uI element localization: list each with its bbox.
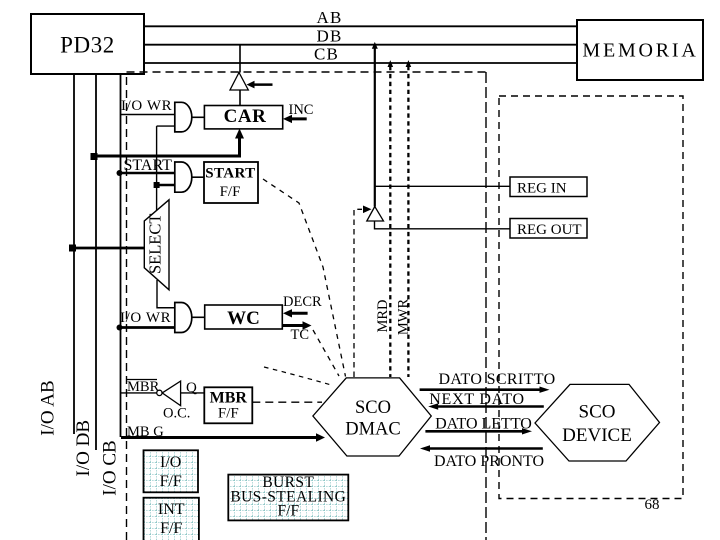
node DATO PRONTO label [434, 453, 544, 470]
node I/O CB label [100, 440, 121, 495]
SELECT mux [144, 200, 169, 290]
svg-text:CAR: CAR [224, 106, 267, 127]
svg-text:PD32: PD32 [60, 33, 115, 58]
arrow NEXT DATO [428, 403, 544, 409]
svg-text:F/F: F/F [218, 406, 239, 422]
node DATO LETTO label [435, 415, 532, 432]
O.C. driver triangle [162, 381, 180, 406]
node MRD label [375, 299, 391, 332]
arrow DATO LETTO [425, 428, 532, 434]
wire CB bus [144, 62, 577, 64]
REG IN box [510, 177, 587, 197]
junction square on select vertical [154, 182, 160, 188]
wire REG OUT to buffer [375, 221, 511, 229]
svg-text:I/O DB: I/O DB [73, 420, 94, 476]
svg-text:F/F: F/F [160, 520, 182, 537]
node DB label [316, 26, 342, 45]
node DECR label [283, 294, 322, 310]
svg-text:START: START [205, 166, 255, 182]
wire I/O DB to CAR (thick, with up arrow) [96, 129, 244, 157]
svg-text:I/O: I/O [160, 454, 181, 471]
svg-text:I/O AB: I/O AB [38, 380, 59, 435]
junction dot START on I/O CB [117, 170, 123, 176]
SCO DMAC hexagon [313, 378, 431, 456]
svg-text:SELECT: SELECT [145, 214, 164, 274]
node START label [124, 157, 173, 174]
wire G3 to WC [192, 316, 205, 318]
svg-text:MRD: MRD [375, 299, 391, 332]
dashed enable REG OUT driver from SCO DMAC [354, 206, 372, 378]
INT F/F box [144, 498, 199, 540]
wire select line vertical to AND1 second input [157, 126, 176, 211]
START F/F box [204, 162, 258, 203]
node CB label [314, 44, 339, 63]
node I/O AB label [38, 380, 59, 435]
register WC [205, 305, 283, 329]
svg-text:REG IN: REG IN [517, 180, 567, 196]
wire G1 to CAR [192, 116, 205, 118]
svg-text:I/O WR: I/O WR [120, 310, 171, 326]
REG OUT box [510, 219, 587, 239]
node INC label [289, 102, 314, 118]
I/O F/F box [144, 450, 199, 492]
junction square on I/O AB [69, 245, 76, 252]
node MBR- label with overline [126, 379, 160, 395]
node I/O DB label [73, 420, 94, 476]
node I/O WR label (bottom) [120, 310, 171, 326]
dashed wire O.C. enable to SCO DMAC [264, 367, 333, 386]
svg-text:DECR: DECR [283, 294, 322, 310]
wire I/O WR to AND3 [120, 326, 176, 329]
svg-text:F/F: F/F [160, 473, 182, 490]
PD32 box [31, 14, 144, 74]
svg-text:I/O WR: I/O WR [121, 98, 172, 114]
svg-text:I/O CB: I/O CB [100, 440, 121, 495]
svg-text:DATO LETTO: DATO LETTO [435, 415, 532, 432]
svg-text:MBR: MBR [210, 389, 248, 406]
junction dot I/O WR on I/O CB [117, 325, 123, 331]
svg-text:DMAC: DMAC [345, 420, 401, 440]
dashed wire START F/F to SCO DMAC [263, 179, 346, 377]
svg-text:DATO SCRITTO: DATO SCRITTO [439, 371, 556, 388]
svg-text:REG OUT: REG OUT [517, 222, 582, 238]
MBR F/F box [204, 387, 252, 423]
AND gate G3 (WC) [175, 303, 192, 333]
svg-text:TC: TC [291, 327, 310, 343]
AND gate G1 (CAR load) [175, 102, 192, 132]
node O.C. label [163, 406, 190, 422]
svg-text:F/F: F/F [220, 184, 241, 200]
node TC label [291, 327, 310, 343]
svg-text:MEMORIA: MEMORIA [582, 39, 698, 61]
svg-text:68: 68 [645, 497, 660, 513]
DMAC dashed boundary left [127, 72, 487, 540]
node DATO SCRITTO label [439, 371, 556, 388]
svg-text:SCO: SCO [579, 402, 616, 423]
arrow DB write (vertical thick) [372, 42, 378, 207]
svg-text:F/F: F/F [278, 503, 300, 520]
register CAR [204, 106, 282, 129]
node I/O WR label (top) [121, 98, 172, 114]
arrow INC into CAR [283, 115, 307, 123]
arrow DECR into WC [283, 309, 308, 317]
buffer triangle CAR to DB [230, 45, 248, 106]
svg-text:START: START [124, 157, 173, 174]
junction square on I/O DB [91, 153, 98, 160]
wire square to AND2 second input [157, 184, 176, 187]
svg-text:MWR: MWR [396, 299, 412, 336]
svg-text:O.C.: O.C. [163, 406, 190, 422]
wire I/O CB vertical [120, 74, 122, 437]
svg-text:INC: INC [289, 102, 314, 118]
wire I/O AB to SELECT [73, 247, 145, 250]
node MWR label [396, 299, 412, 336]
wire Q to MBR F/F [181, 392, 205, 394]
wire I/O AB vertical [73, 74, 75, 434]
svg-text:DATO PRONTO: DATO PRONTO [434, 453, 544, 470]
arrow MRD dashed vertical [388, 60, 394, 377]
wire I/O WR to AND1 [121, 114, 177, 116]
wire AB bus [144, 25, 577, 27]
arrow DATO SCRITTO [420, 387, 550, 393]
svg-text:DEVICE: DEVICE [562, 425, 632, 446]
svg-text:SCO: SCO [355, 398, 391, 418]
wire MBR to O.C. driver [121, 392, 157, 394]
dashed wire TC to SCO DMAC [313, 330, 339, 376]
wire DB bus [144, 44, 577, 46]
svg-text:DB: DB [316, 26, 342, 45]
AND gate G2 (START) [175, 162, 192, 192]
node AB label [316, 8, 342, 27]
wire START to AND2 [120, 172, 177, 175]
wire G2 to START F/F [192, 176, 204, 178]
DEVICE dashed boundary right [499, 96, 683, 499]
BURST BUS-STEALING F/F box [228, 474, 348, 520]
wire SELECT output to AND3 [157, 280, 175, 308]
svg-text:INT: INT [158, 501, 185, 518]
dashed wire MBR F/F to SCO DMAC [252, 401, 322, 403]
svg-text:Q: Q [186, 380, 197, 396]
arrow DATO PRONTO [420, 445, 543, 451]
MEMORIA box [577, 20, 703, 80]
node NEXT DATO label [429, 391, 525, 408]
svg-text:AB: AB [316, 8, 342, 27]
SCO DEVICE hexagon [535, 384, 660, 461]
wire REG IN to DB [375, 185, 511, 187]
node page number 68 [645, 497, 660, 513]
buffer triangle REG OUT to DB [367, 207, 384, 222]
svg-text:WC: WC [227, 308, 260, 329]
node MBG label [127, 424, 164, 440]
arrow MWR dashed vertical [406, 60, 412, 377]
arrow MBG to SCO DMAC [121, 433, 325, 441]
node Q label [186, 380, 197, 396]
arrow enable into buffer triangle [247, 81, 273, 89]
arrow TC out of WC [282, 321, 311, 329]
svg-text:CB: CB [314, 44, 339, 63]
O.C. driver bubble [157, 390, 162, 395]
wire I/O DB vertical [95, 74, 97, 450]
